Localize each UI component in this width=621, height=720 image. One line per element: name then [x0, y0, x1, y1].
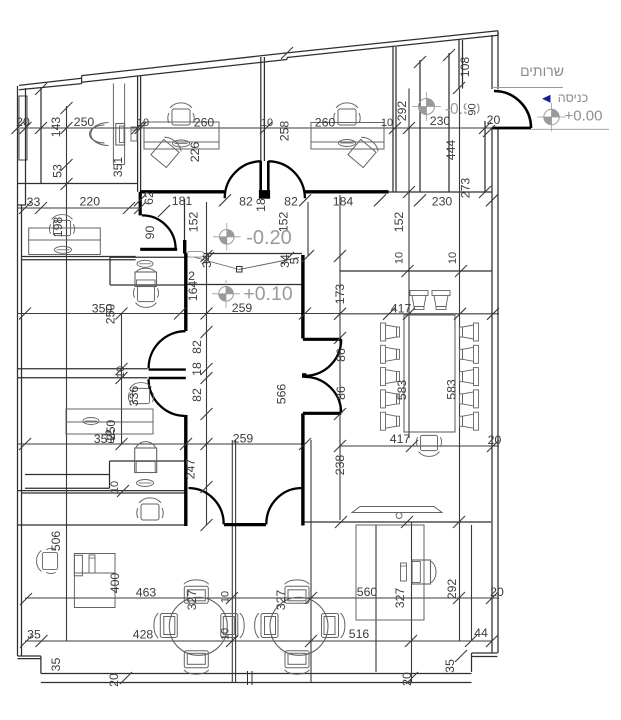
svg-text:20: 20 — [487, 113, 501, 127]
svg-text:90: 90 — [143, 226, 157, 240]
svg-text:152: 152 — [392, 212, 406, 233]
svg-text:273: 273 — [459, 178, 473, 199]
svg-text:238: 238 — [333, 455, 347, 476]
svg-text:10: 10 — [447, 252, 459, 264]
svg-text:108: 108 — [458, 57, 472, 78]
svg-text:86: 86 — [334, 386, 348, 400]
svg-text:18: 18 — [254, 198, 268, 212]
svg-text:-0.20: -0.20 — [246, 227, 292, 249]
svg-text:259: 259 — [233, 432, 254, 446]
svg-text:444: 444 — [444, 140, 458, 161]
svg-text:164: 164 — [186, 281, 200, 302]
svg-text:516: 516 — [349, 627, 370, 641]
svg-text:+0.10: +0.10 — [243, 283, 292, 305]
svg-text:שרותים: שרותים — [520, 63, 564, 79]
svg-text:35: 35 — [49, 658, 63, 672]
svg-text:463: 463 — [136, 586, 157, 600]
svg-text:583: 583 — [445, 379, 459, 400]
svg-text:18: 18 — [190, 362, 204, 376]
svg-text:35: 35 — [443, 659, 457, 673]
svg-text:20: 20 — [107, 673, 121, 687]
svg-text:258: 258 — [278, 121, 292, 142]
svg-text:417: 417 — [391, 302, 412, 316]
svg-text:10: 10 — [220, 591, 232, 603]
svg-text:143: 143 — [49, 117, 63, 138]
svg-text:82: 82 — [284, 195, 298, 209]
svg-text:10: 10 — [115, 366, 127, 378]
svg-text:181: 181 — [172, 194, 193, 208]
svg-text:400: 400 — [108, 573, 122, 594]
svg-text:260: 260 — [194, 116, 215, 130]
svg-text:247: 247 — [184, 459, 198, 480]
svg-text:10: 10 — [109, 481, 121, 493]
svg-text:428: 428 — [133, 628, 154, 642]
svg-text:250: 250 — [74, 115, 95, 129]
svg-text:417: 417 — [390, 432, 411, 446]
svg-text:20: 20 — [490, 585, 504, 599]
svg-text:198: 198 — [51, 217, 65, 238]
svg-text:20: 20 — [16, 115, 30, 129]
svg-text:327: 327 — [185, 590, 199, 611]
svg-text:226: 226 — [188, 142, 202, 163]
svg-text:566: 566 — [275, 384, 289, 405]
svg-text:327: 327 — [274, 590, 288, 611]
svg-text:82: 82 — [190, 340, 204, 354]
svg-text:35: 35 — [27, 628, 41, 642]
svg-text:82: 82 — [239, 195, 253, 209]
svg-text:327: 327 — [393, 588, 407, 609]
svg-text:+0.00: +0.00 — [565, 108, 603, 125]
svg-text:250: 250 — [104, 304, 118, 325]
svg-text:כניסה: כניסה — [558, 91, 588, 105]
svg-text:292: 292 — [395, 101, 409, 122]
svg-text:86: 86 — [334, 348, 348, 362]
svg-text:44: 44 — [474, 626, 488, 640]
svg-text:10: 10 — [220, 628, 232, 640]
svg-text:5: 5 — [288, 257, 302, 264]
svg-text:184: 184 — [333, 195, 354, 209]
svg-text:53: 53 — [51, 164, 65, 178]
svg-text:82: 82 — [190, 388, 204, 402]
svg-text:10: 10 — [261, 117, 273, 129]
svg-text:10: 10 — [394, 252, 406, 264]
svg-text:10: 10 — [381, 117, 393, 129]
svg-text:560: 560 — [357, 585, 378, 599]
svg-text:34: 34 — [200, 254, 214, 268]
svg-text:62: 62 — [142, 191, 156, 205]
svg-text:351: 351 — [111, 157, 125, 178]
svg-text:230: 230 — [432, 195, 453, 209]
svg-text:583: 583 — [395, 380, 409, 401]
svg-text:33: 33 — [27, 195, 41, 209]
svg-text:20: 20 — [488, 433, 502, 447]
svg-text:336: 336 — [127, 386, 141, 407]
svg-text:10: 10 — [137, 117, 149, 129]
svg-text:90: 90 — [467, 103, 479, 115]
svg-text:260: 260 — [315, 116, 336, 130]
svg-text:506: 506 — [49, 531, 63, 552]
svg-text:292: 292 — [445, 579, 459, 600]
svg-text:2: 2 — [188, 269, 195, 283]
svg-text:220: 220 — [80, 195, 101, 209]
svg-text:12: 12 — [103, 429, 117, 443]
svg-text:173: 173 — [333, 284, 347, 305]
svg-text:20: 20 — [400, 672, 414, 686]
svg-text:152: 152 — [187, 212, 201, 233]
